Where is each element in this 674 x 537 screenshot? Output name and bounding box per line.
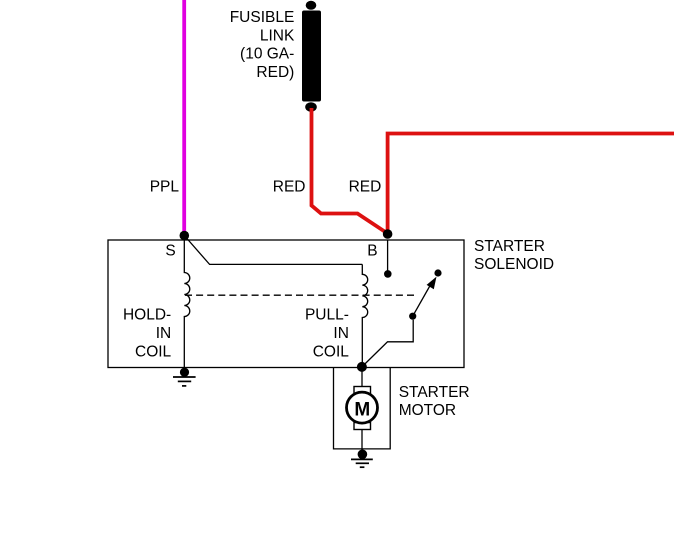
svg-text:STARTER: STARTER [474, 238, 545, 255]
ground (hold-in coil) [173, 377, 196, 386]
svg-text:LINK: LINK [260, 27, 295, 44]
svg-text:STARTER: STARTER [399, 384, 470, 401]
svg-text:(10 GA-: (10 GA- [240, 46, 294, 63]
svg-text:IN: IN [156, 325, 172, 342]
pull-in coil [362, 264, 367, 367]
fusible link F1 [302, 1, 321, 112]
terminal S dot [180, 231, 190, 241]
svg-text:PPL: PPL [150, 179, 180, 196]
svg-text:SOLENOID: SOLENOID [474, 256, 554, 273]
svg-text:RED: RED [273, 179, 306, 196]
svg-text:RED: RED [349, 179, 382, 196]
fixed contact dot [434, 269, 441, 276]
wire RED from fusible link to terminal B [312, 108, 388, 234]
wire motor to ground [361, 428, 363, 455]
svg-text:M: M [354, 399, 370, 420]
solenoid box [108, 240, 464, 368]
label FUSIBLE LINK (10 GA-RED) [230, 9, 295, 81]
svg-text:COIL: COIL [135, 344, 172, 361]
switch arm with arrow [413, 277, 437, 317]
junction dot (pull-in coil / motor) [357, 362, 367, 372]
wire RED from right edge to terminal B [388, 134, 674, 233]
hold-in coil [184, 240, 190, 372]
ground (starter motor) [351, 459, 373, 467]
wire S to pull-in coil [184, 236, 362, 265]
svg-text:IN: IN [333, 325, 349, 342]
plunger linkage wire [362, 320, 413, 367]
svg-text:FUSIBLE: FUSIBLE [230, 9, 295, 26]
svg-text:RED): RED) [256, 64, 294, 81]
wire PPL feed [182, 0, 186, 236]
svg-text:COIL: COIL [313, 344, 350, 361]
svg-text:B: B [367, 243, 377, 260]
moving contact dot [409, 313, 416, 320]
terminal B dot [383, 229, 393, 239]
ground dot (hold-in coil) [180, 368, 189, 377]
label STARTER MOTOR [399, 384, 470, 419]
wire solenoid to motor [361, 367, 363, 388]
ground dot (starter motor) [358, 450, 368, 460]
svg-text:MOTOR: MOTOR [399, 402, 456, 419]
motor M1 [347, 387, 378, 430]
label STARTER SOLENOID [474, 238, 554, 273]
starter motor enclosure [334, 368, 391, 449]
label HOLD-IN COIL [123, 307, 172, 361]
label PULL-IN COIL [305, 307, 349, 361]
svg-text:PULL-: PULL- [305, 307, 349, 324]
contact dot (B side) [384, 270, 392, 278]
svg-text:S: S [165, 242, 175, 259]
dashed plunger link [185, 294, 415, 296]
svg-text:HOLD-: HOLD- [123, 307, 171, 324]
wire B to contact [387, 240, 389, 274]
